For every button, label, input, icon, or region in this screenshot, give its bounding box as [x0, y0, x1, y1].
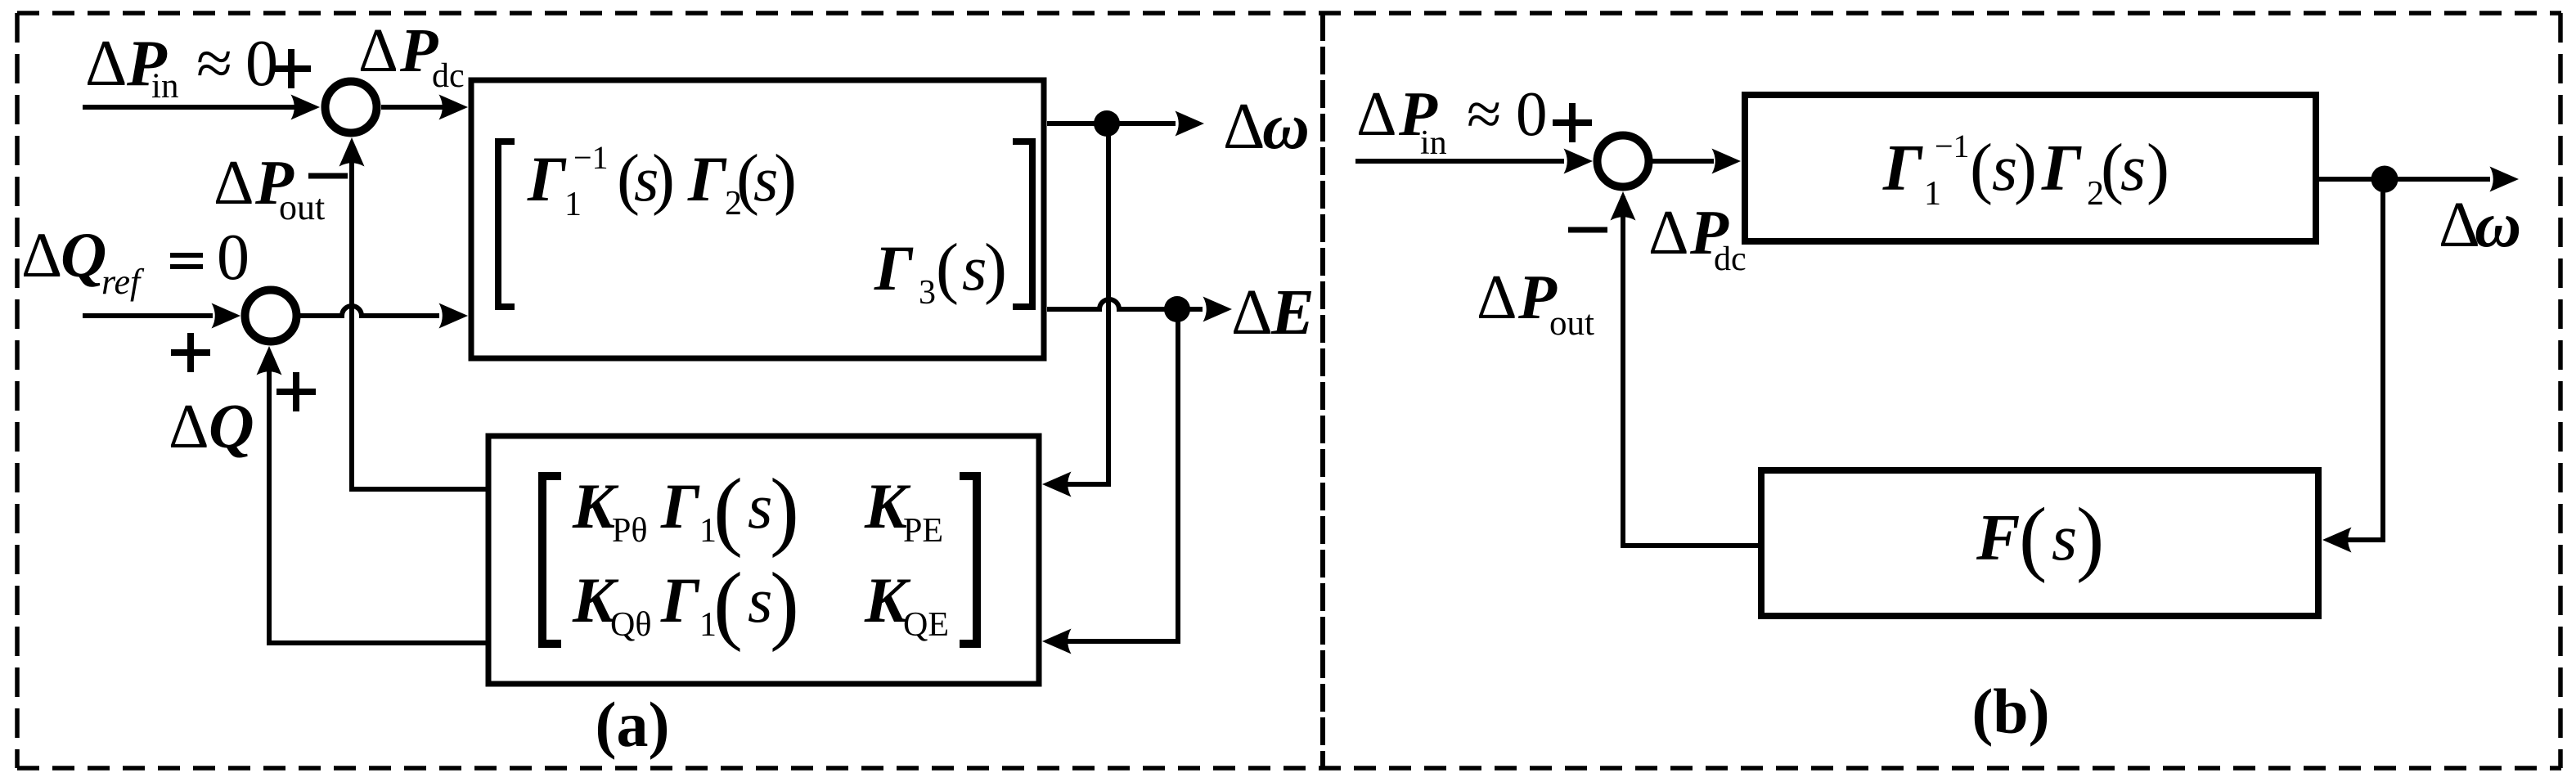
- svg-text:Δ: Δ: [1477, 262, 1517, 332]
- svg-text:Γ: Γ: [1882, 133, 1923, 204]
- svg-text:1: 1: [1924, 175, 1941, 213]
- svg-text:1: 1: [564, 186, 582, 223]
- svg-text:Γ: Γ: [687, 143, 727, 214]
- svg-text:Δ: Δ: [1231, 277, 1273, 348]
- svg-text:Qθ: Qθ: [610, 606, 651, 644]
- svg-text:ω: ω: [2475, 190, 2521, 261]
- svg-text:in: in: [151, 67, 178, 106]
- svg-text:PE: PE: [903, 512, 943, 550]
- wire S1 to block G: [381, 95, 468, 120]
- dashed outer frame left: [15, 13, 20, 768]
- svg-text:3: 3: [919, 274, 936, 312]
- dashed outer frame right: [2558, 13, 2563, 768]
- svg-text:(: (: [713, 461, 743, 559]
- svg-text:(: (: [936, 230, 959, 306]
- wire feedback from node down into F block: [2322, 192, 2383, 553]
- node dot (b): [2371, 166, 2398, 193]
- wire input dP_in: [83, 95, 320, 120]
- svg-text:0: 0: [1516, 79, 1548, 149]
- svg-text:Δ: Δ: [1223, 91, 1265, 163]
- svg-text:0: 0: [245, 28, 278, 100]
- K matrix right bracket: [960, 476, 977, 644]
- svg-text:s: s: [962, 232, 987, 303]
- summing junction S1: [326, 82, 377, 133]
- node dot on E line: [1164, 296, 1190, 322]
- svg-text:(b): (b): [1971, 676, 2049, 747]
- wire S2 to block G with hop: [300, 303, 468, 329]
- svg-text:−1: −1: [1935, 128, 1970, 164]
- svg-text:Γ: Γ: [874, 232, 914, 303]
- plus sign right below S2: [276, 372, 316, 411]
- svg-text:): ): [770, 461, 799, 559]
- matrix right bracket: [1013, 142, 1032, 307]
- svg-text:(: (: [1970, 130, 1993, 206]
- svg-text:Δ: Δ: [214, 147, 254, 218]
- block Gb: [1745, 95, 2316, 241]
- wire output dOmega: [1047, 111, 1204, 137]
- svg-text:out: out: [279, 187, 325, 227]
- svg-text:Δ: Δ: [358, 16, 398, 85]
- summing junction S2: [245, 290, 297, 342]
- svg-text:Pθ: Pθ: [612, 512, 647, 550]
- wire F output up into S1b: [1611, 191, 1759, 546]
- dashed outer frame bottom: [17, 766, 2561, 771]
- svg-text:in: in: [1420, 124, 1447, 162]
- svg-text:Γ: Γ: [527, 143, 567, 214]
- svg-text:): ): [652, 141, 675, 217]
- svg-text:out: out: [1549, 304, 1594, 343]
- svg-text:dc: dc: [432, 57, 465, 95]
- label dP_dc: [358, 16, 465, 95]
- dashed outer frame top: [17, 11, 2561, 16]
- svg-text:Γ: Γ: [660, 564, 700, 636]
- wire feedback from E node down to K block row2: [1042, 309, 1178, 654]
- svg-text:s: s: [2120, 133, 2146, 204]
- K matrix row2: [572, 555, 949, 653]
- wire output dE with hop: [1047, 297, 1232, 322]
- svg-text:≈: ≈: [196, 28, 232, 100]
- label dP_in ~ 0 +: [85, 28, 311, 106]
- wire input dP_in (b): [1355, 149, 1593, 174]
- block F: [1761, 470, 2318, 616]
- node dot on omega line: [1094, 110, 1120, 137]
- block F text F(s): [1976, 491, 2104, 584]
- svg-text:E: E: [1270, 277, 1315, 348]
- matrix row1: Gamma1^-1(s)Gamma2(s): [527, 139, 797, 223]
- block Gb text: [1882, 128, 2169, 213]
- plus sign left of S2: [171, 333, 210, 372]
- svg-text:dc: dc: [1714, 240, 1747, 278]
- dashed divider between (a) and (b): [1320, 13, 1325, 768]
- svg-text:(: (: [713, 555, 743, 653]
- label minus above dP_out: [308, 173, 348, 179]
- label dQ_ref = 0: [21, 219, 250, 302]
- K matrix left bracket: [542, 476, 561, 644]
- svg-text:ω: ω: [1262, 91, 1310, 163]
- svg-text:≈: ≈: [1467, 79, 1501, 149]
- wire dQ feedback: K row2 output up into S2: [257, 346, 487, 643]
- svg-text:s: s: [2052, 502, 2077, 574]
- svg-text:Q: Q: [209, 391, 254, 461]
- wire input dQ_ref: [83, 303, 241, 329]
- svg-text:Δ: Δ: [1356, 79, 1397, 149]
- svg-text:Δ: Δ: [1648, 197, 1689, 267]
- wire output dOmega (b): [2319, 167, 2519, 192]
- block K (gain matrix): [488, 436, 1039, 684]
- wire dP_out feedback: K row1 output up into S1: [339, 137, 487, 489]
- label dQ: [169, 391, 254, 461]
- svg-text:(a): (a): [596, 689, 670, 760]
- svg-text:ref: ref: [101, 262, 145, 302]
- matrix left bracket: [498, 142, 515, 307]
- svg-text:Γ: Γ: [2041, 133, 2082, 204]
- svg-text:−1: −1: [573, 139, 609, 176]
- svg-text:): ): [2076, 491, 2104, 584]
- label dP_out: [214, 147, 325, 227]
- svg-text:s: s: [748, 564, 772, 636]
- label dOmega (b): [2439, 190, 2521, 261]
- label dOmega (a): [1223, 91, 1310, 163]
- K matrix row1: [572, 461, 943, 559]
- svg-text:Δ: Δ: [21, 219, 62, 290]
- label dP_dc (b): [1648, 197, 1747, 278]
- label dE: [1231, 277, 1315, 348]
- wire feedback from omega node down to K block row1: [1042, 124, 1108, 497]
- svg-text:): ): [984, 230, 1007, 306]
- svg-text:(: (: [2019, 491, 2047, 584]
- svg-text:F: F: [1976, 502, 2020, 574]
- svg-text:Q: Q: [61, 219, 106, 290]
- svg-text:Δ: Δ: [85, 28, 127, 100]
- svg-text:): ): [2014, 130, 2037, 206]
- svg-text:s: s: [748, 470, 772, 542]
- svg-text:Γ: Γ: [660, 470, 700, 542]
- svg-text:0: 0: [217, 222, 250, 294]
- svg-text:QE: QE: [903, 606, 949, 644]
- matrix row2: Gamma3(s): [874, 230, 1007, 312]
- block G (transfer matrix): [471, 80, 1044, 358]
- label dP_in ~ 0 + (b): [1356, 79, 1592, 162]
- label minus below S1b: [1568, 227, 1607, 233]
- summing junction S1b: [1598, 136, 1649, 187]
- wire S1b to block Gb: [1652, 149, 1741, 174]
- svg-text:): ): [2147, 130, 2169, 206]
- svg-text:): ): [774, 141, 797, 217]
- label dP_out (b): [1477, 262, 1594, 343]
- svg-text:): ): [770, 555, 799, 653]
- svg-text:Δ: Δ: [169, 391, 209, 461]
